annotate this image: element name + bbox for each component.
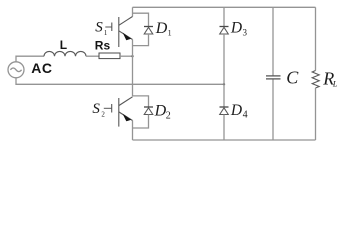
svg-text:1: 1 [168, 28, 172, 37]
transistor S2 (IGBT) [112, 97, 133, 127]
svg-text:2: 2 [101, 110, 105, 118]
svg-text:L: L [60, 38, 67, 52]
wire AC top to inductor [16, 56, 44, 62]
svg-text:Rs: Rs [95, 39, 111, 53]
node: AC return / D3-D4 junction [223, 83, 225, 85]
wire top rail [133, 6, 316, 8]
svg-text:2: 2 [166, 111, 171, 122]
svg-text:3: 3 [243, 27, 248, 37]
svg-text:S: S [95, 20, 103, 36]
inductor L [44, 51, 86, 56]
S1 emitter arrow [123, 33, 132, 41]
node: Rs / S-branch junction [131, 55, 133, 57]
svg-text:4: 4 [243, 109, 248, 120]
wire C branch upper [272, 7, 274, 75]
svg-text:D: D [230, 19, 242, 36]
wire inductor to Rs [86, 55, 99, 57]
wire S-branch upper vertical [132, 7, 134, 16]
svg-text:D: D [230, 102, 242, 119]
wire S-branch middle vertical [132, 40, 134, 97]
capacitor C [266, 76, 281, 79]
wire D1 bottom stub [133, 34, 149, 46]
wire D1 top stub [133, 13, 149, 26]
svg-text:S: S [92, 101, 100, 117]
wire RL branch upper [315, 7, 317, 70]
wire AC bottom to D3/D4 midpoint [16, 78, 224, 85]
svg-text:L: L [332, 79, 338, 88]
svg-text:C: C [286, 68, 299, 88]
wire bottom rail [133, 139, 316, 141]
S2 gate lead [104, 107, 112, 109]
wire D3/D4 branch middle [223, 34, 225, 107]
diode D4 [220, 107, 229, 115]
wire D3/D4 branch upper [223, 7, 225, 26]
resistor Rs [99, 53, 120, 59]
S1 gate lead [105, 26, 112, 28]
wire D2 bottom stub [133, 115, 149, 129]
wire D3/D4 branch lower [223, 115, 225, 141]
wire S-branch lower vertical [132, 120, 134, 140]
svg-text:1: 1 [104, 29, 108, 37]
svg-text:D: D [154, 103, 167, 120]
S2 emitter arrow [123, 114, 132, 122]
diode D3 [220, 27, 229, 35]
transistor S1 (IGBT) [112, 17, 133, 48]
wire RL branch lower [315, 88, 317, 140]
svg-text:D: D [155, 20, 168, 37]
wire C branch lower [272, 79, 274, 140]
resistor RL zigzag [312, 71, 319, 89]
diode D2 [144, 107, 153, 115]
wire D2 top stub [133, 96, 149, 107]
svg-text:AC: AC [31, 60, 52, 76]
diode D1 [144, 27, 153, 35]
AC source V1 [8, 62, 24, 78]
wire Rs to S-branch node [120, 55, 133, 57]
